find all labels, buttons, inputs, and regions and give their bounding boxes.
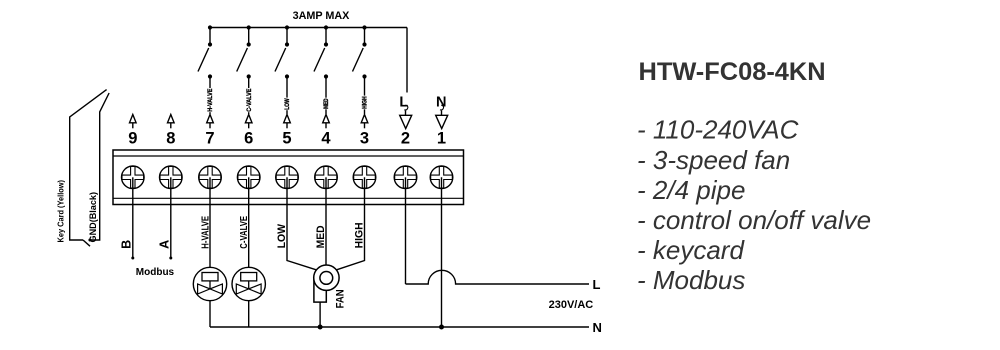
label: terminal number 1: [437, 130, 446, 148]
node: bus junction above switch S3: [362, 25, 366, 29]
label: C-VALVE (bottom): [239, 216, 250, 249]
wire: switch S7 to terminal 7 arrow: [209, 77, 211, 115]
wire: L line with hump over terminal-1 wire: [406, 270, 590, 284]
terminal screw 3: [353, 166, 376, 189]
svg-text:N: N: [436, 94, 446, 110]
switch S4 (MED fan relay contact): [314, 28, 328, 79]
svg-text:A: A: [158, 240, 172, 249]
svg-text:B: B: [120, 240, 134, 249]
arrow: terminal 7 input (up): [207, 115, 214, 129]
svg-text:- 2/4 pipe: - 2/4 pipe: [637, 175, 745, 205]
wire: bus drop to terminal 2 (L): [406, 28, 408, 93]
terminal screw 5: [276, 166, 299, 189]
svg-text:HTW-FC08-4KN: HTW-FC08-4KN: [639, 58, 826, 86]
svg-text:3AMP MAX: 3AMP MAX: [293, 10, 351, 22]
terminal screw 9: [122, 166, 145, 189]
svg-text:L: L: [593, 277, 601, 292]
wire: terminal 2 down to L line: [405, 177, 407, 284]
svg-text:GND(Black): GND(Black): [88, 192, 98, 243]
node: Modbus A end dot: [169, 257, 172, 260]
terminal screw 8: [160, 166, 183, 189]
label: H-VALVE (bottom): [200, 216, 211, 249]
node: bus junction above switch S4: [324, 25, 328, 29]
label: L (line terminal 2): [399, 94, 408, 110]
arrow: terminal 3 input (up): [361, 115, 368, 129]
wire: switch S6 to terminal 6 arrow: [248, 77, 250, 115]
svg-text:3: 3: [360, 130, 369, 148]
switch S5 (LOW fan relay contact): [275, 28, 289, 79]
label: feature line 2/4 pipe: [637, 175, 745, 205]
wire: fused supply bus (top horizontal): [210, 27, 407, 29]
svg-text:- 3-speed fan: - 3-speed fan: [637, 145, 790, 175]
svg-text:6: 6: [244, 130, 253, 148]
svg-text:- keycard: - keycard: [637, 235, 745, 265]
label: A: [158, 240, 172, 249]
terminal screw 7: [199, 166, 222, 189]
switch S7 (H-VALVE relay contact): [198, 28, 212, 79]
svg-text:LOW: LOW: [276, 223, 288, 248]
wire: terminal 9 to Modbus B: [132, 177, 134, 258]
node: bus junction above switch S7: [208, 25, 212, 29]
label: B: [120, 240, 134, 249]
label: terminal number 5: [282, 130, 291, 148]
svg-text:MED: MED: [323, 98, 330, 109]
label: L (right mains): [593, 277, 601, 292]
label: HIGH (top, on wire 3): [361, 96, 368, 110]
label: terminal number 3: [360, 130, 369, 148]
keycard cable: yellow wire: [70, 90, 107, 240]
arrow: terminal 1 (down): [436, 111, 448, 129]
keycard switch contact dot: [88, 239, 91, 242]
label: terminal number 6: [244, 130, 253, 148]
label: N (right mains): [593, 320, 602, 335]
arrow: terminal 9 input (up): [130, 115, 137, 129]
terminal block TB1 body: [113, 150, 464, 205]
fan motor M1 (blower symbol): [314, 265, 339, 302]
svg-text:HIGH: HIGH: [362, 96, 369, 109]
label: terminal number 4: [321, 130, 331, 148]
label: MED (top, on wire 4): [323, 98, 330, 110]
svg-text:LOW: LOW: [284, 98, 291, 110]
label: GND(Black): [88, 192, 98, 243]
svg-text:2: 2: [401, 130, 410, 148]
svg-text:L: L: [399, 94, 408, 110]
wire: fan bottom to N line: [319, 302, 321, 327]
label: feature line control on/off valve: [637, 205, 871, 235]
switch S6 (C-VALVE relay contact): [237, 28, 251, 79]
terminal screw 2: [394, 166, 417, 189]
svg-text:FAN: FAN: [335, 289, 347, 308]
wire: terminal 8 to Modbus A: [170, 177, 172, 258]
label: feature line Modbus: [637, 265, 745, 295]
node: junction fan wire and N line: [318, 325, 323, 330]
node: bus junction above switch S5: [285, 25, 289, 29]
arrow: terminal 6 input (up): [245, 115, 252, 129]
keycard switch blade: [83, 240, 90, 246]
svg-text:5: 5: [282, 130, 291, 148]
valve V2 (C-VALVE motorized valve): [232, 267, 265, 300]
label: MED (bottom): [315, 225, 327, 248]
arrow: terminal 4 input (up): [323, 115, 330, 129]
label: feature line keycard: [637, 235, 745, 265]
arrow: terminal 2 (down): [400, 111, 412, 129]
keycard cable: black wire: [90, 93, 109, 240]
svg-text:- Modbus: - Modbus: [637, 265, 745, 295]
squiggle: N wire hook: [440, 105, 444, 110]
svg-text:C-VALVE: C-VALVE: [239, 216, 250, 249]
svg-text:MED: MED: [315, 225, 327, 248]
label: N (neutral terminal 1): [436, 94, 446, 110]
arrow: terminal 8 input (up): [168, 115, 175, 129]
arrow: terminal 5 input (up): [284, 115, 291, 129]
svg-text:Modbus: Modbus: [136, 267, 175, 278]
terminal screw 6: [237, 166, 260, 189]
svg-text:C-VALVE: C-VALVE: [246, 89, 253, 112]
svg-text:- control on/off valve: - control on/off valve: [637, 205, 871, 235]
label: feature line 3-speed fan: [637, 145, 790, 175]
label: H-VALVE (top, on wire 7): [207, 88, 214, 112]
label: terminal number 8: [166, 130, 175, 148]
wire: valve V1 bottom to N line: [209, 301, 211, 327]
label: feature line 110-240VAC: [637, 115, 799, 145]
svg-text:7: 7: [205, 130, 214, 148]
label: model title HTW-FC08-4KN: [639, 58, 826, 86]
wire: terminal 4 (MED) to fan: [325, 177, 327, 265]
svg-text:1: 1: [437, 130, 446, 148]
label: Key Card (Yellow): [56, 180, 66, 243]
svg-text:H-VALVE: H-VALVE: [207, 89, 214, 112]
label: terminal number 2: [401, 130, 410, 148]
svg-text:HIGH: HIGH: [354, 222, 366, 248]
wire: terminal 6 to C-VALVE: [248, 177, 250, 267]
node: junction terminal-1 wire and N line: [439, 325, 444, 330]
svg-text:N: N: [593, 320, 602, 335]
label: 230V/AC: [549, 299, 594, 311]
svg-text:H-VALVE: H-VALVE: [200, 216, 211, 249]
terminal screw 1: [430, 166, 453, 189]
squiggle: L wire hook: [404, 105, 408, 110]
wire: terminal 7 to H-VALVE: [209, 177, 211, 267]
label: LOW (top, on wire 5): [284, 98, 291, 111]
node: bus junction above switch S6: [247, 25, 251, 29]
wire: terminal 3 (HIGH) to fan: [336, 177, 364, 270]
svg-text:4: 4: [321, 130, 331, 148]
svg-text:230V/AC: 230V/AC: [549, 299, 594, 311]
terminal screw 4: [315, 166, 338, 189]
label: FAN: [335, 289, 347, 308]
wire: switch S5 to terminal 5 arrow: [286, 77, 288, 115]
wire: N line: [210, 326, 589, 328]
node: Modbus B end dot: [131, 257, 134, 260]
valve V1 (H-VALVE motorized valve): [193, 267, 226, 300]
label: C-VALVE (top, on wire 6): [246, 88, 253, 112]
svg-text:8: 8: [166, 130, 175, 148]
label: HIGH (bottom): [354, 222, 366, 248]
label: Modbus: [136, 267, 175, 278]
label: 3AMP MAX: [293, 10, 351, 22]
wire: terminal 1 down to N line: [441, 177, 443, 327]
wire: switch S4 to terminal 4 arrow: [325, 77, 327, 115]
wire: terminal 5 (LOW) to fan: [287, 177, 317, 270]
switch S3 (HIGH fan relay contact): [353, 28, 367, 79]
label: LOW (bottom): [276, 223, 288, 248]
svg-text:Key Card (Yellow): Key Card (Yellow): [56, 180, 66, 243]
label: terminal number 7: [205, 130, 214, 148]
wire: switch S3 to terminal 3 arrow: [364, 77, 366, 115]
wire: valve V2 bottom to N line: [248, 301, 250, 327]
svg-text:- 110-240VAC: - 110-240VAC: [637, 115, 799, 145]
label: terminal number 9: [128, 130, 137, 148]
svg-text:9: 9: [128, 130, 137, 148]
